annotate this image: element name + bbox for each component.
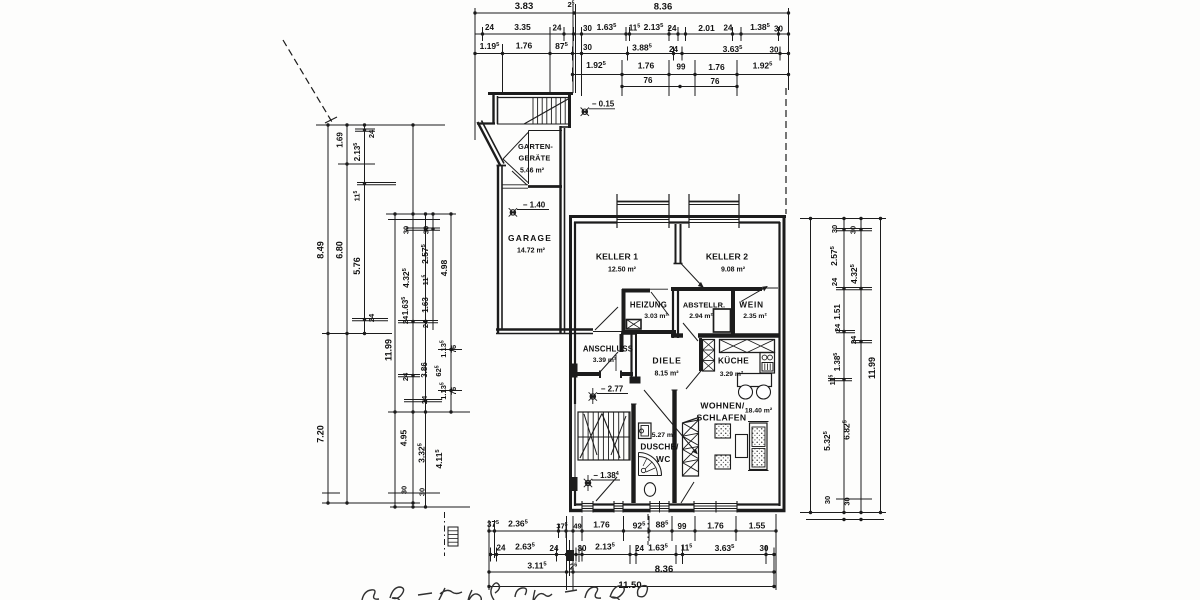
svg-text:WC: WC: [656, 455, 671, 464]
svg-text:24: 24: [367, 129, 376, 138]
svg-text:11.99: 11.99: [867, 357, 877, 379]
svg-text:30: 30: [823, 496, 832, 504]
svg-text:− 2.77: − 2.77: [601, 385, 624, 394]
svg-text:99: 99: [677, 63, 686, 72]
svg-text:KÜCHE: KÜCHE: [718, 356, 749, 366]
svg-text:24: 24: [668, 24, 677, 33]
svg-text:8.36: 8.36: [654, 2, 673, 13]
svg-text:24: 24: [367, 313, 376, 322]
svg-text:2.94 m²: 2.94 m²: [689, 313, 713, 320]
svg-text:− 1.384: − 1.384: [593, 471, 618, 480]
svg-text:1.55: 1.55: [749, 521, 766, 531]
svg-text:1.76: 1.76: [516, 41, 533, 51]
svg-text:HEIZUNG: HEIZUNG: [630, 301, 667, 310]
svg-text:5.76: 5.76: [352, 257, 362, 275]
svg-text:3.39 m²: 3.39 m²: [593, 357, 617, 364]
svg-text:30: 30: [402, 226, 411, 234]
svg-text:24: 24: [833, 323, 842, 332]
svg-text:5.27 m²: 5.27 m²: [652, 432, 676, 439]
svg-text:30: 30: [760, 544, 769, 553]
svg-text:ANSCHLUSS: ANSCHLUSS: [583, 345, 633, 354]
svg-text:2.01: 2.01: [698, 23, 715, 33]
svg-text:4.95: 4.95: [399, 429, 409, 446]
svg-text:3.86: 3.86: [420, 362, 429, 378]
svg-text:24: 24: [497, 544, 506, 553]
svg-text:24: 24: [421, 319, 430, 328]
svg-text:24: 24: [553, 24, 562, 33]
svg-text:76: 76: [449, 345, 458, 353]
svg-text:30: 30: [583, 43, 592, 52]
svg-text:1.76: 1.76: [593, 520, 610, 530]
svg-text:14.72 m²: 14.72 m²: [517, 248, 546, 255]
svg-text:3.83: 3.83: [515, 1, 534, 12]
svg-text:76: 76: [449, 387, 458, 395]
svg-text:3.03 m²: 3.03 m²: [644, 313, 668, 320]
svg-text:30: 30: [583, 24, 592, 33]
svg-text:KELLER 2: KELLER 2: [706, 252, 748, 262]
svg-text:24: 24: [849, 335, 858, 344]
svg-text:30: 30: [418, 488, 427, 496]
svg-text:24: 24: [830, 277, 839, 286]
svg-text:30: 30: [400, 486, 409, 494]
svg-text:1.51: 1.51: [833, 304, 842, 320]
svg-text:1.69: 1.69: [336, 132, 345, 148]
svg-text:WOHNEN/: WOHNEN/: [700, 401, 745, 411]
svg-text:4.98: 4.98: [439, 259, 449, 276]
svg-text:30: 30: [843, 497, 852, 505]
svg-text:30: 30: [849, 226, 858, 234]
svg-text:1.63: 1.63: [421, 297, 430, 313]
svg-text:24: 24: [420, 395, 429, 404]
svg-text:7.20: 7.20: [316, 425, 326, 443]
svg-text:3.29 m²: 3.29 m²: [720, 371, 744, 378]
svg-text:5.46 m²: 5.46 m²: [520, 168, 545, 175]
svg-text:24: 24: [724, 24, 733, 33]
svg-text:30: 30: [422, 226, 431, 234]
svg-text:3.35: 3.35: [514, 22, 531, 32]
svg-text:− 1.40: − 1.40: [523, 201, 546, 210]
svg-text:− 0.15: − 0.15: [592, 100, 615, 109]
svg-text:76: 76: [711, 77, 720, 86]
svg-text:24: 24: [401, 315, 410, 324]
svg-text:GARAGE: GARAGE: [508, 233, 552, 243]
svg-text:24: 24: [485, 23, 494, 32]
svg-text:1.76: 1.76: [707, 521, 724, 531]
svg-text:24: 24: [669, 45, 678, 54]
svg-text:30: 30: [830, 225, 839, 233]
svg-text:30: 30: [774, 25, 783, 34]
svg-text:GARTEN-: GARTEN-: [518, 142, 553, 151]
svg-text:8.36: 8.36: [655, 564, 674, 575]
svg-text:KELLER 1: KELLER 1: [596, 252, 638, 262]
svg-text:11.99: 11.99: [384, 339, 394, 361]
svg-text:99: 99: [678, 522, 687, 531]
svg-text:9.08 m²: 9.08 m²: [721, 267, 746, 274]
svg-text:DIELE: DIELE: [652, 356, 681, 366]
svg-text:24: 24: [401, 372, 410, 381]
svg-text:WEIN: WEIN: [739, 301, 764, 310]
svg-text:6.80: 6.80: [335, 241, 345, 259]
svg-text:49: 49: [573, 522, 581, 531]
svg-text:76: 76: [644, 76, 653, 85]
svg-text:SCHLAFEN: SCHLAFEN: [697, 413, 747, 423]
svg-text:ABSTELLR.: ABSTELLR.: [683, 301, 725, 310]
svg-text:24: 24: [550, 544, 559, 553]
svg-text:2.35 m²: 2.35 m²: [743, 313, 767, 320]
svg-text:DUSCHE/: DUSCHE/: [640, 443, 679, 452]
svg-text:8.15 m²: 8.15 m²: [654, 371, 679, 378]
svg-text:8.49: 8.49: [316, 241, 326, 259]
svg-text:1.76: 1.76: [638, 61, 655, 71]
svg-text:18.40 m²: 18.40 m²: [745, 408, 773, 415]
svg-text:GERÄTE: GERÄTE: [519, 154, 551, 163]
svg-text:30: 30: [770, 46, 779, 55]
svg-text:1.76: 1.76: [708, 62, 725, 72]
svg-text:12.50 m²: 12.50 m²: [608, 267, 637, 274]
